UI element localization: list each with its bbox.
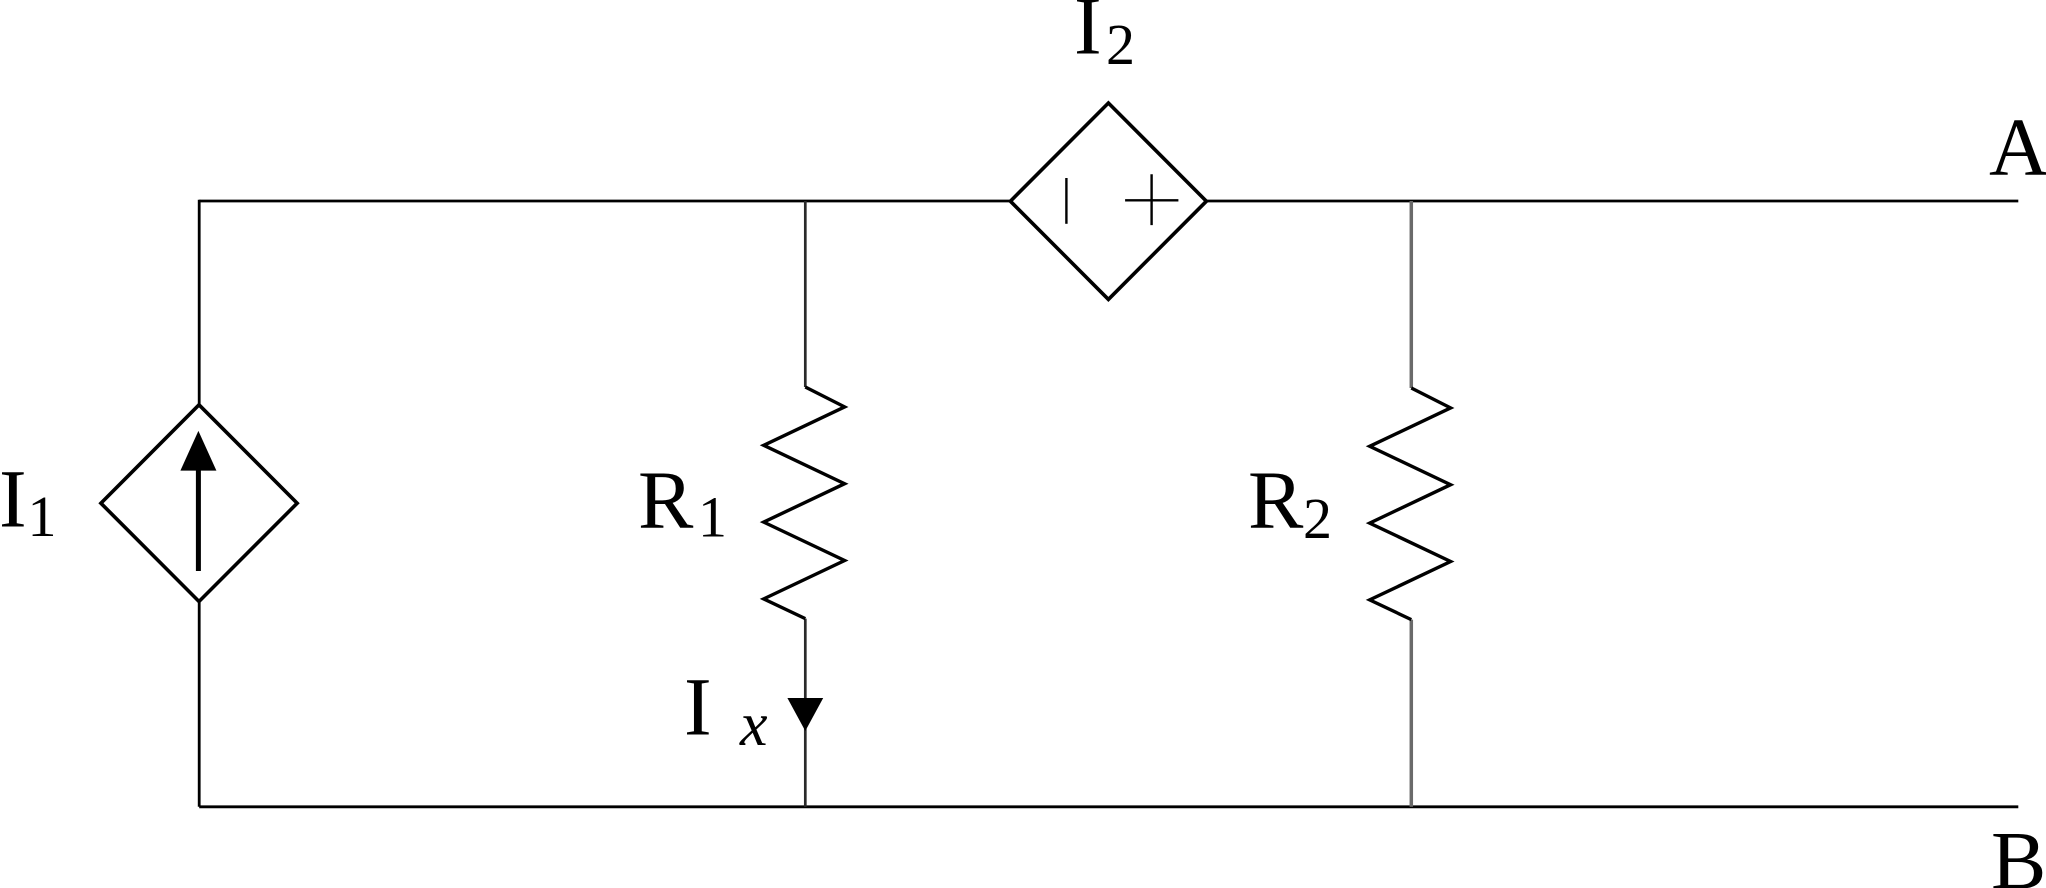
svg-text:2: 2 (1303, 486, 1332, 551)
wire R1 lower lead with Ix arrow (804, 619, 807, 807)
svg-text:B: B (1991, 815, 2046, 888)
current source I1 arrowhead (180, 431, 216, 471)
wire top rail from top-left corner to node A end (199, 200, 2018, 203)
svg-text:1: 1 (28, 484, 57, 549)
current source I1 diamond body (101, 405, 297, 602)
I2 plus sign (1125, 174, 1178, 225)
wire R1 upper lead (804, 201, 807, 387)
svg-text:x: x (739, 691, 768, 759)
svg-text:R: R (1248, 454, 1304, 546)
resistor R1 zigzag (764, 387, 845, 619)
svg-text:2: 2 (1106, 12, 1135, 77)
Ix current arrowhead on R1 lower lead (787, 698, 823, 731)
wire R2 upper lead (1410, 201, 1414, 388)
wire bottom rail from bottom-left corner to node B end (199, 805, 2018, 808)
dependent voltage source I2 diamond body (1010, 103, 1206, 299)
resistor R2 zigzag (1370, 388, 1451, 620)
wire left branch vertical through I1 (198, 200, 201, 807)
svg-text:R: R (638, 454, 694, 546)
current source I1 arrow shaft (196, 462, 201, 571)
svg-text:A: A (1989, 101, 2046, 193)
svg-text:1: 1 (698, 485, 727, 550)
svg-text:I: I (684, 661, 712, 753)
I2 minus terminal bar (1065, 178, 1067, 224)
svg-text:I: I (0, 453, 27, 545)
wire R2 lower lead (1410, 620, 1414, 807)
svg-text:I: I (1074, 0, 1102, 72)
